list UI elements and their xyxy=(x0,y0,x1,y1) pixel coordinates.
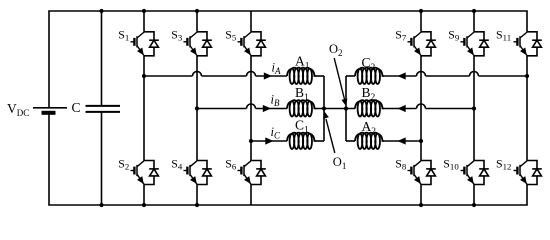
svg-text:S10: S10 xyxy=(443,157,459,172)
svg-text:S3: S3 xyxy=(171,27,183,42)
svg-text:S4: S4 xyxy=(171,157,183,172)
svg-text:iB: iB xyxy=(271,93,280,109)
svg-text:S6: S6 xyxy=(225,157,237,172)
svg-text:VDC: VDC xyxy=(7,101,29,118)
svg-text:S11: S11 xyxy=(496,27,511,42)
svg-text:S8: S8 xyxy=(395,157,407,172)
svg-text:O2: O2 xyxy=(329,42,343,58)
svg-text:iA: iA xyxy=(272,60,281,76)
svg-text:S12: S12 xyxy=(496,157,511,172)
svg-text:C: C xyxy=(72,100,81,115)
svg-text:S5: S5 xyxy=(225,27,237,42)
svg-text:iC: iC xyxy=(271,125,281,141)
svg-text:S2: S2 xyxy=(118,157,129,172)
svg-text:S1: S1 xyxy=(118,27,129,42)
svg-text:S9: S9 xyxy=(448,27,460,42)
svg-text:S7: S7 xyxy=(395,27,407,42)
svg-text:O1: O1 xyxy=(333,155,347,171)
